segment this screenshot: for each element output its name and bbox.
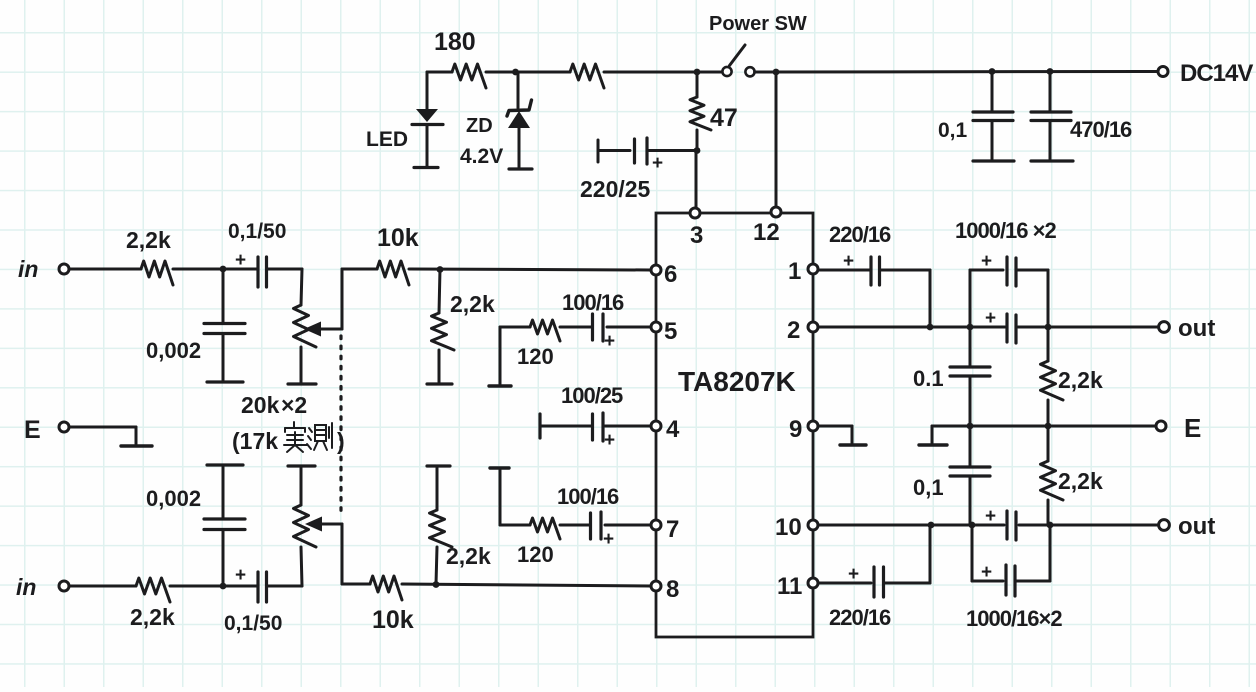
label 0,002 top (146, 338, 201, 363)
svg-text:TA8207K: TA8207K (678, 366, 796, 397)
pin 7 (651, 516, 679, 543)
wire top rail from LED branch to 180 resistor (427, 71, 452, 74)
plus sign 220/16 pin11 (848, 564, 859, 585)
svg-text:+: + (652, 153, 663, 174)
capacitor 470/16 (1031, 72, 1073, 162)
pin 2 (787, 317, 818, 344)
svg-text:2: 2 (787, 317, 800, 344)
svg-text:100/25: 100/25 (561, 383, 623, 408)
plus sign 1000/16 bottom second (985, 506, 996, 527)
junction node cap 470/16 (1047, 68, 1054, 75)
capacitor 100/25 pin4 (540, 413, 651, 441)
svg-text:0,1: 0,1 (938, 119, 968, 142)
label 10k bottom (372, 606, 414, 634)
label ZD (466, 115, 493, 137)
resistor 2.2k shunt top (427, 269, 454, 384)
terminal in top (18, 256, 69, 282)
plus sign 100/16 pin7 (603, 529, 614, 550)
capacitor 220/16 pin1 (818, 257, 930, 285)
wire node to pin 3 (695, 150, 698, 208)
svg-text:2,2k: 2,2k (1058, 468, 1103, 494)
svg-text:out: out (1178, 315, 1215, 342)
svg-text:+: + (604, 331, 615, 352)
svg-text:220/25: 220/25 (580, 176, 651, 202)
terminal DC14V (1158, 67, 1168, 77)
svg-text:Power SW: Power SW (709, 13, 807, 35)
svg-text:0,002: 0,002 (146, 338, 201, 363)
resistor unlabeled series (570, 64, 604, 88)
resistor 2.2k input top (141, 261, 173, 285)
pin 6 (651, 261, 677, 288)
LED (412, 72, 443, 168)
wire pin 9 (818, 425, 852, 428)
label 2,2k input top (126, 227, 171, 253)
junction node E b (1045, 423, 1052, 430)
label 2,2k input bottom (130, 604, 175, 630)
junction node out bot a (928, 522, 935, 529)
pin 4 (651, 416, 680, 443)
wire switch to DC14V terminal (755, 70, 1158, 74)
capacitor 0.1/50 top (258, 257, 302, 287)
label 1000/16 x2 bottom (966, 606, 1062, 631)
resistor 120 pin7 (530, 518, 560, 539)
svg-text:ZD: ZD (466, 115, 493, 137)
wire pin11 cap up to out line (929, 525, 932, 583)
svg-text:9: 9 (789, 416, 802, 443)
wire 2.2k to node (173, 268, 258, 271)
label Power SW (709, 13, 807, 35)
op-amp IC U1 TA8207K body (656, 213, 813, 637)
label 0.1 right top (913, 366, 944, 391)
svg-text:+: + (604, 430, 615, 451)
label DC14V (1180, 60, 1253, 87)
ground stub pin7 (490, 466, 509, 469)
junction node input top (220, 266, 227, 273)
svg-text:5: 5 (664, 318, 677, 345)
svg-text:1000/16 ×2: 1000/16 ×2 (955, 218, 1056, 243)
svg-text:220/16: 220/16 (829, 222, 891, 247)
wire to switch node (604, 71, 723, 74)
svg-text:10: 10 (775, 514, 802, 541)
ground E left (121, 427, 152, 446)
svg-text:+: + (981, 251, 992, 272)
svg-text:4: 4 (666, 416, 680, 443)
potentiometer 20k top (288, 269, 316, 384)
power switch SW (722, 45, 754, 76)
wire pin 10 to out (818, 524, 1158, 527)
capacitor 1000/16 top first (970, 257, 1048, 327)
svg-text:+: + (603, 529, 614, 550)
label 0,1 right bottom (913, 475, 944, 500)
svg-text:+: + (848, 564, 859, 585)
svg-text:E: E (24, 416, 41, 444)
svg-text:2,2k: 2,2k (126, 227, 171, 253)
resistor 120 pin5 (530, 320, 560, 341)
capacitor 100/16 pin5 (560, 314, 651, 341)
junction node out top c (1045, 324, 1052, 331)
pin 9 (789, 416, 818, 443)
capacitor 0.1 right bottom (950, 426, 990, 525)
svg-text:120: 120 (517, 542, 554, 567)
plus sign 100/25 pin4 (604, 430, 615, 451)
svg-text:8: 8 (666, 576, 679, 603)
label 2,2k right top (1058, 367, 1103, 393)
label 2,2k shunt bottom (446, 543, 491, 569)
label 2,2k shunt top (450, 291, 495, 317)
svg-text:12: 12 (753, 219, 780, 246)
svg-text:2,2k: 2,2k (130, 604, 175, 630)
svg-text:1000/16×2: 1000/16×2 (966, 606, 1062, 631)
resistor 10k bottom (370, 576, 402, 600)
svg-text:+: + (235, 565, 246, 586)
wire 2.2k to node bottom (170, 585, 258, 588)
junction node E a (967, 423, 974, 430)
label 0,1 top (938, 119, 968, 142)
pin 12 (753, 207, 781, 246)
zener diode ZD 4.2V (507, 72, 532, 169)
label 4.2V (460, 145, 503, 168)
plus sign 1000/16 bottom first (981, 562, 992, 583)
junction node cap 0.1 (989, 68, 996, 75)
label 2,2k right bottom (1058, 468, 1103, 494)
svg-text:DC14V: DC14V (1180, 60, 1253, 87)
pot wiper arrow top (304, 322, 342, 337)
wire to 10k resistor (342, 268, 377, 271)
label out top (1178, 315, 1215, 342)
capacitor 0.1 top (973, 72, 1014, 162)
wire pin 2 to out (818, 326, 1158, 329)
svg-text:10k: 10k (377, 224, 419, 252)
wire 120 to stub pin5 (500, 327, 530, 384)
resistor 180 (452, 64, 486, 88)
svg-text:100/16: 100/16 (562, 290, 624, 315)
stub pin4 left (538, 414, 541, 438)
label TA8207K (678, 366, 796, 397)
junction node LED/ZD rail (512, 69, 519, 76)
svg-text:in: in (16, 574, 36, 600)
pin 11 (777, 573, 818, 600)
label LED (366, 128, 408, 151)
svg-text:180: 180 (434, 28, 476, 56)
terminal out top (1159, 322, 1170, 333)
label 0,002 bottom (146, 486, 201, 511)
pin 1 (788, 258, 818, 285)
pot wiper arrow bottom (305, 517, 342, 532)
label 0,1/50 bottom (224, 612, 282, 635)
label 20k x2 (241, 392, 307, 418)
ground stub pin5 (489, 384, 511, 387)
svg-text:100/16: 100/16 (557, 484, 619, 509)
resistor 2.2k right top (1041, 327, 1064, 426)
svg-text:120: 120 (517, 344, 554, 369)
pin 5 (651, 318, 677, 345)
svg-text:): ) (337, 428, 345, 454)
svg-text:+: + (985, 506, 996, 527)
wire 10k to pin 6 (409, 269, 651, 270)
wire in to 2.2k (69, 268, 141, 271)
terminal E right (1156, 421, 1166, 431)
junction node switch/47 (694, 69, 701, 76)
svg-text:10k: 10k (372, 606, 414, 634)
junction node out bot c (1047, 522, 1054, 529)
wire E to ground (69, 426, 136, 429)
label 180 (434, 28, 476, 56)
svg-text:+: + (843, 251, 854, 272)
svg-text:out: out (1178, 513, 1215, 540)
terminal out bottom (1159, 520, 1170, 531)
ground E line (919, 426, 970, 445)
svg-text:3: 3 (690, 222, 703, 249)
svg-text:+: + (235, 250, 246, 271)
svg-text:20k: 20k (241, 392, 280, 418)
svg-text:LED: LED (366, 128, 408, 151)
label 0,1/50 top (228, 220, 286, 243)
pin 10 (775, 514, 818, 541)
capacitor 0.002 bottom (204, 465, 245, 586)
junction node 10k/2.2k top (437, 266, 444, 273)
resistor 2.2k right bottom (1041, 426, 1064, 525)
resistor 10k top (377, 261, 409, 285)
plus sign 0.1/50 top (235, 250, 246, 271)
capacitor 0.002 top (204, 269, 245, 382)
svg-text:0.1: 0.1 (913, 366, 944, 391)
wire 120 to stub pin7 (500, 470, 530, 525)
resistor 2.2k input bottom (136, 578, 170, 602)
label 100/16 pin7 (557, 484, 619, 509)
label 220/16 bottom (829, 605, 891, 630)
svg-text:2,2k: 2,2k (450, 291, 495, 317)
label 17k measured (232, 422, 345, 454)
resistor 2.2k shunt bottom (427, 466, 452, 584)
label 120 pin7 (517, 542, 554, 567)
svg-text:470/16: 470/16 (1070, 117, 1132, 142)
pin 3 (690, 208, 703, 249)
svg-text:0,1: 0,1 (913, 475, 944, 500)
svg-text:2,2k: 2,2k (1058, 367, 1103, 393)
terminal in bottom (16, 574, 69, 600)
label 220/25 (580, 176, 651, 202)
plus sign 220/25 (652, 153, 663, 174)
label 1000/16 x2 top (955, 218, 1056, 243)
label 470/16 (1070, 117, 1132, 142)
capacitor 0.1 right top (950, 327, 990, 426)
capacitor 220/16 pin11 (818, 567, 930, 597)
junction node 47/cap 220-25 (694, 147, 701, 154)
svg-text:(17k: (17k (232, 428, 278, 454)
svg-text:11: 11 (777, 573, 802, 600)
svg-text:47: 47 (710, 104, 738, 132)
svg-text:1: 1 (788, 258, 801, 285)
plus sign 100/16 pin5 (604, 331, 615, 352)
wire node to pin 12 (775, 72, 778, 208)
label 220/16 top (829, 222, 891, 247)
svg-text:7: 7 (666, 516, 679, 543)
plus sign 0.1/50 bottom (235, 565, 246, 586)
junction node pin12 drop (773, 69, 780, 76)
svg-text:220/16: 220/16 (829, 605, 891, 630)
svg-text:0,1/50: 0,1/50 (228, 220, 286, 243)
junction node out top b (967, 324, 974, 331)
label 120 pin5 (517, 344, 554, 369)
capacitor 220/25 (598, 138, 697, 164)
junction node out top a (927, 324, 934, 331)
wire 180 to node (486, 71, 570, 74)
capacitor 1000/16 top second (1007, 314, 1016, 343)
label out bottom (1178, 513, 1215, 540)
svg-text:in: in (18, 256, 38, 282)
junction node 10k/2.2k bottom (433, 581, 440, 588)
junction node out bot b (969, 522, 976, 529)
capacitor 0.1/50 bottom (258, 572, 302, 602)
plus sign 1000/16 top second (985, 308, 996, 329)
label 100/16 pin5 (562, 290, 624, 315)
plus sign 1000/16 top first (981, 251, 992, 272)
wire E line to terminal (970, 425, 1156, 428)
junction node input bottom (220, 583, 227, 590)
wire 10k to pin 8 (402, 584, 651, 586)
label 10k top (377, 224, 419, 252)
label E right (1184, 413, 1201, 443)
svg-text:+: + (985, 308, 996, 329)
plus sign 220/16 pin1 (843, 251, 854, 272)
wire wiper down to 10k bottom (342, 524, 370, 584)
label 100/25 pin4 (561, 383, 623, 408)
label 47 (710, 104, 738, 132)
svg-text:+: + (981, 562, 992, 583)
svg-text:2,2k: 2,2k (446, 543, 491, 569)
pin 8 (651, 576, 679, 603)
svg-text:4.2V: 4.2V (460, 145, 503, 168)
svg-text:E: E (1184, 413, 1201, 443)
resistor 47 vertical (690, 72, 711, 150)
capacitor 1000/16 bottom first (972, 525, 1050, 596)
wire in bottom to 2.2k (69, 585, 136, 588)
ground pin 9 (840, 426, 866, 445)
svg-text:0,002: 0,002 (146, 486, 201, 511)
wire pin1 cap down to out line (929, 270, 932, 327)
potentiometer 20k bottom (288, 466, 316, 586)
terminal E left (24, 416, 69, 444)
capacitor 100/16 pin7 (560, 512, 651, 539)
wire wiper up to 10k (341, 269, 344, 329)
svg-text:6: 6 (664, 261, 677, 288)
capacitor 1000/16 bottom second (1007, 511, 1016, 540)
svg-text:×2: ×2 (281, 392, 307, 418)
svg-text:0,1/50: 0,1/50 (224, 612, 282, 635)
dotted gang link (339, 336, 342, 514)
